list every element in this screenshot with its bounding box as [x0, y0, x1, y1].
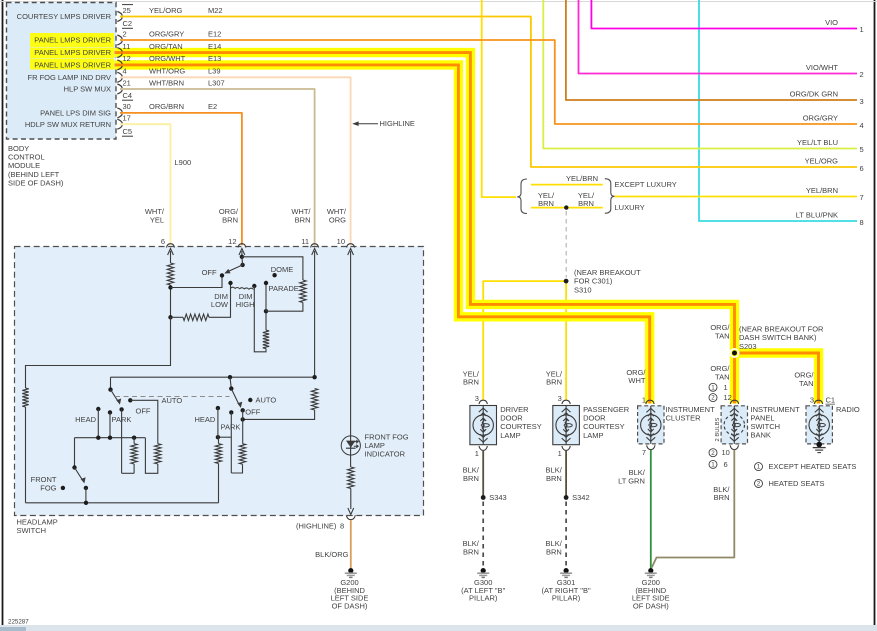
- svg-text:6: 6: [860, 164, 864, 173]
- wire ORG/BRN pin30 to headlamp switch pin 12: [120, 113, 242, 245]
- svg-text:LT GRN: LT GRN: [618, 476, 645, 485]
- right rotary switch lever: [230, 377, 231, 388]
- BCM pin connector arcs: [117, 12, 122, 16]
- svg-text:YEL/BRN: YEL/BRN: [566, 174, 598, 183]
- pin12 column to node: [241, 251, 243, 257]
- svg-text:BRN: BRN: [714, 493, 730, 502]
- svg-text:DOME: DOME: [271, 265, 294, 274]
- wire WHT/ORG pin4 to headlamp switch pin 10: [120, 77, 351, 245]
- svg-text:12: 12: [228, 237, 236, 246]
- node bus right lever: [228, 375, 232, 379]
- svg-text:PILLAR): PILLAR): [552, 594, 581, 603]
- svg-text:COURTESY LMPS DRIVER: COURTESY LMPS DRIVER: [17, 12, 112, 21]
- wire node up to PARADE contact: [265, 285, 267, 311]
- svg-text:BANK: BANK: [751, 431, 771, 440]
- svg-text:1: 1: [642, 395, 646, 404]
- switch pin 6 connector: [167, 244, 175, 248]
- wire LT BLU/PNK from top edge to exit 8: [699, 0, 857, 221]
- legend heated seats: [755, 480, 763, 488]
- svg-text:2: 2: [123, 29, 127, 38]
- svg-text:6: 6: [724, 460, 728, 469]
- svg-text:TAN: TAN: [799, 379, 813, 388]
- svg-text:HLP SW MUX: HLP SW MUX: [64, 85, 111, 94]
- right switch PARK contact: [229, 410, 233, 414]
- svg-text:BRN: BRN: [295, 215, 311, 224]
- svg-text:25: 25: [123, 6, 131, 15]
- highlighted wire ORG/TAN pin11 to S203 to panel switch bank and radio: [115, 53, 735, 404]
- svg-text:WHT/ORG: WHT/ORG: [149, 67, 185, 76]
- wire ORG/GRY pin2 to right edge exit 4: [120, 40, 857, 124]
- wire YEL/ORG pin25 to right edge exit 6: [120, 17, 857, 168]
- svg-text:HEAD: HEAD: [75, 415, 96, 424]
- svg-text:HIGH: HIGH: [236, 300, 255, 309]
- svg-text:PILLAR): PILLAR): [469, 594, 498, 603]
- svg-text:BRN: BRN: [463, 378, 479, 387]
- splice S203: [730, 349, 738, 357]
- wire PARK contact down to bus2: [109, 412, 111, 437]
- svg-text:1: 1: [475, 449, 479, 458]
- svg-text:DASH SWITCH BANK): DASH SWITCH BANK): [739, 333, 817, 342]
- radio chassis ground: [816, 442, 822, 448]
- svg-text:3: 3: [810, 395, 814, 404]
- ground G200 right: [648, 568, 653, 573]
- svg-text:YEL/LT BLU: YEL/LT BLU: [797, 138, 838, 147]
- svg-text:FOG: FOG: [40, 483, 56, 492]
- wire BLK/BRN driver lamp to S343: [482, 451, 484, 498]
- pin11 column down to main bus: [314, 251, 316, 377]
- svg-text:8: 8: [860, 218, 864, 227]
- svg-text:DRIVER: DRIVER: [500, 405, 529, 414]
- dashed wire S342 to G301: [565, 502, 567, 567]
- legend except heated seats: [755, 463, 763, 471]
- secondary bus left switch: [75, 437, 146, 439]
- contact DOME: [272, 273, 276, 277]
- svg-text:HEATED SEATS: HEATED SEATS: [769, 479, 825, 488]
- wire HEAD contact down to bus2: [97, 409, 99, 438]
- ground G300: [481, 568, 486, 573]
- svg-text:S342: S342: [572, 493, 590, 502]
- svg-text:BRN: BRN: [578, 199, 594, 208]
- svg-text:2: 2: [860, 70, 864, 79]
- switch pin 8 connector at bottom: [348, 508, 354, 515]
- resistor left B (auto): [155, 444, 161, 464]
- svg-text:BRN: BRN: [222, 215, 238, 224]
- splice S342: [564, 495, 569, 500]
- wire VIO from top edge to exit 1: [591, 0, 857, 29]
- svg-text:21: 21: [123, 78, 131, 87]
- resistor from pin11 node to OFF node: [311, 389, 317, 411]
- svg-text:17: 17: [123, 114, 131, 123]
- svg-text:COURTESY: COURTESY: [583, 422, 625, 431]
- svg-text:C4: C4: [123, 91, 133, 100]
- svg-text:MODULE: MODULE: [8, 161, 40, 170]
- wire VIO/WHT from top edge to exit 2: [579, 0, 858, 74]
- svg-text:CLUSTER: CLUSTER: [666, 413, 702, 422]
- svg-text:L900: L900: [175, 158, 192, 167]
- svg-text:3: 3: [860, 97, 864, 106]
- svg-text:(HIGHLINE): (HIGHLINE): [296, 522, 337, 531]
- node on pin6 column lower: [168, 315, 172, 319]
- left rotary switch lever: [110, 377, 112, 389]
- right PARK column: [230, 412, 232, 473]
- svg-text:BRN: BRN: [538, 199, 554, 208]
- svg-text:11: 11: [123, 42, 131, 51]
- splice S310: [564, 279, 569, 284]
- svg-text:LUXURY: LUXURY: [615, 203, 645, 212]
- svg-text:PANEL LMPS DRIVER: PANEL LMPS DRIVER: [34, 61, 111, 70]
- svg-text:COURTESY: COURTESY: [500, 422, 542, 431]
- svg-text:ORG/GRY: ORG/GRY: [803, 114, 838, 123]
- node PARADE branch: [264, 309, 268, 313]
- svg-text:OF DASH): OF DASH): [332, 601, 368, 610]
- horizontal resistor to DIM LOW riser: [171, 316, 184, 318]
- svg-text:225287: 225287: [8, 619, 29, 626]
- svg-text:AUTO: AUTO: [162, 396, 183, 405]
- wire ORG/DK GRN from top edge to exit 3: [566, 0, 857, 100]
- page left border: [2, 0, 4, 625]
- svg-text:7: 7: [642, 448, 646, 457]
- svg-text:4: 4: [123, 67, 127, 76]
- page top border: [0, 1, 877, 3]
- svg-text:1: 1: [558, 449, 562, 458]
- svg-text:YEL/BRN: YEL/BRN: [806, 186, 838, 195]
- contact front fog on: [84, 486, 88, 490]
- headlamp switch box: [15, 247, 424, 516]
- svg-text:6: 6: [161, 237, 165, 246]
- wire DIM HIGH down and to resistor: [254, 286, 266, 352]
- svg-text:12: 12: [123, 54, 131, 63]
- main bus line of rotary switches: [111, 376, 315, 378]
- svg-text:2: 2: [711, 450, 715, 457]
- svg-text:C2: C2: [123, 19, 133, 28]
- svg-text:HDLP SW MUX RETURN: HDLP SW MUX RETURN: [25, 120, 111, 129]
- contact OFF left switch: [119, 407, 123, 411]
- svg-text:2 BULBS: 2 BULBS: [715, 418, 721, 442]
- svg-text:3: 3: [558, 394, 562, 403]
- svg-text:PARK: PARK: [221, 422, 241, 431]
- svg-text:M22: M22: [208, 6, 223, 15]
- svg-text:1: 1: [860, 25, 864, 34]
- svg-text:C5: C5: [123, 127, 133, 136]
- svg-text:AUTO: AUTO: [256, 396, 277, 405]
- dashed wire S343 to G300: [482, 502, 484, 567]
- svg-text:BRN: BRN: [463, 547, 479, 556]
- svg-text:EXCEPT LUXURY: EXCEPT LUXURY: [615, 180, 677, 189]
- svg-text:VIO: VIO: [825, 18, 838, 27]
- svg-text:S343: S343: [489, 493, 507, 502]
- svg-text:EXCEPT HEATED SEATS: EXCEPT HEATED SEATS: [769, 462, 857, 471]
- contact DIM HIGH: [252, 284, 256, 288]
- svg-text:S203: S203: [739, 342, 757, 351]
- svg-text:4: 4: [860, 121, 864, 130]
- svg-text:SIDE OF DASH): SIDE OF DASH): [8, 179, 64, 188]
- svg-text:HIGHLINE: HIGHLINE: [380, 119, 415, 128]
- svg-text:ORG/DK GRN: ORG/DK GRN: [790, 90, 838, 99]
- wire YEL/LT BLU from top edge to exit 5: [543, 0, 857, 149]
- svg-text:3: 3: [475, 394, 479, 403]
- svg-text:12: 12: [724, 393, 732, 402]
- svg-text:BRN: BRN: [546, 474, 562, 483]
- svg-text:10: 10: [722, 448, 730, 457]
- svg-text:1: 1: [711, 384, 715, 391]
- svg-text:E13: E13: [208, 54, 221, 63]
- wire YEL/BRN exit 7: [615, 196, 858, 198]
- rheostat wave between DIM LOW and DIM HIGH: [231, 287, 254, 289]
- svg-text:(NEAR BREAKOUT: (NEAR BREAKOUT: [574, 268, 641, 277]
- wire YEL/BRN S310 to driver door lamp: [483, 281, 566, 400]
- svg-text:BLK/ORG: BLK/ORG: [315, 550, 349, 559]
- svg-text:ORG: ORG: [329, 215, 346, 224]
- svg-text:OFF: OFF: [245, 408, 260, 417]
- pin6 column lower run to fog line: [26, 317, 171, 388]
- front fog switch lever: [72, 465, 76, 469]
- switch pin 11 connector: [311, 244, 319, 248]
- svg-text:E14: E14: [208, 42, 221, 51]
- svg-text:8: 8: [340, 522, 344, 531]
- node pin12: [240, 255, 244, 259]
- resistor HEAD column to fog line: [218, 437, 220, 443]
- right switch OFF contact: [241, 408, 245, 412]
- wire BLK/BRN passenger lamp to S342: [565, 451, 567, 498]
- node right HEAD: [216, 435, 220, 439]
- front fog lamp indicator LED: [350, 251, 352, 467]
- svg-text:C1: C1: [826, 395, 836, 404]
- node bus pin11: [312, 375, 316, 379]
- svg-text:E2: E2: [208, 102, 217, 111]
- svg-text:1: 1: [711, 462, 715, 469]
- dashed detent arc line: [115, 396, 230, 398]
- svg-text:ORG/TAN: ORG/TAN: [149, 42, 183, 51]
- svg-text:SWITCH: SWITCH: [17, 526, 47, 535]
- contact DIM LOW: [228, 281, 232, 285]
- svg-text:L39: L39: [208, 67, 221, 76]
- dimmer switch lever: [240, 263, 244, 267]
- svg-text:OF DASH): OF DASH): [633, 601, 669, 610]
- ground G301: [564, 568, 569, 573]
- svg-text:TAN: TAN: [715, 331, 729, 340]
- instrument panel switch bank: [709, 383, 717, 391]
- svg-text:S310: S310: [574, 285, 592, 294]
- wire YEL/BRN S310 to passenger door lamp: [565, 281, 567, 400]
- wire BLK/ORG pin8 to G200: [350, 520, 352, 568]
- ground G200 left: [348, 568, 353, 573]
- wire YEL/BRN upper EXCEPT LUXURY: [531, 184, 603, 186]
- svg-text:YEL: YEL: [150, 215, 164, 224]
- svg-text:BRN: BRN: [463, 474, 479, 483]
- wire WHT/YEL L900 pin17 to headlamp switch pin 6: [120, 124, 171, 245]
- wire YEL/BRN vertical from top edge to brace: [482, 0, 516, 197]
- svg-text:OFF: OFF: [136, 407, 151, 416]
- dashed breakout to S310: [565, 211, 567, 278]
- svg-text:LT BLU/PNK: LT BLU/PNK: [796, 211, 838, 220]
- svg-text:30: 30: [123, 102, 131, 111]
- svg-text:RADIO: RADIO: [836, 405, 860, 414]
- svg-text:10: 10: [337, 237, 345, 246]
- page right border: [874, 0, 876, 625]
- resistor below PARADE node: [263, 330, 269, 348]
- contact HEAD left switch: [96, 407, 100, 411]
- wire bus2 left end down to fog lever: [74, 438, 76, 468]
- wire BLK/BRN switch bank to G200: [652, 450, 735, 568]
- resistor below LED: [348, 467, 354, 489]
- splice S343: [481, 495, 486, 500]
- svg-text:ORG/WHT: ORG/WHT: [149, 54, 186, 63]
- junction dot on LUXURY line: [564, 205, 568, 209]
- svg-text:INDICATOR: INDICATOR: [365, 450, 406, 459]
- svg-text:L307: L307: [208, 78, 225, 87]
- svg-text:YEL/ORG: YEL/ORG: [805, 157, 839, 166]
- svg-text:LAMP: LAMP: [500, 431, 520, 440]
- contact PARADE: [264, 281, 268, 285]
- tick above pin 25: [122, 4, 133, 6]
- svg-text:PASSENGER: PASSENGER: [583, 405, 630, 414]
- wire WHT/BRN pin21 to headlamp switch pin 11: [120, 89, 315, 245]
- fog output line to head resistor column: [26, 502, 219, 504]
- svg-text:PARADE: PARADE: [269, 284, 299, 293]
- HIGHLINE arrow pointing at WHT/ORG wire: [355, 123, 378, 125]
- highlight marks on PANEL LMPS DRIVER labels: [30, 33, 114, 48]
- contact OFF (dimmer): [220, 273, 224, 277]
- svg-text:BRN: BRN: [546, 547, 562, 556]
- svg-text:ORG/GRY: ORG/GRY: [149, 29, 184, 38]
- svg-text:FOR C301): FOR C301): [574, 277, 613, 286]
- svg-text:PANEL LPS DIM SIG: PANEL LPS DIM SIG: [40, 109, 111, 118]
- node on pin6 column upper: [168, 285, 172, 289]
- footer bar: [0, 625, 877, 631]
- svg-text:7: 7: [860, 193, 864, 202]
- contact PARK left switch: [108, 410, 112, 414]
- brace left curly: [517, 179, 527, 214]
- resistor left A (off): [122, 472, 135, 474]
- right switch: AUTO contact isolated: [248, 398, 252, 402]
- body control module box: [7, 3, 117, 140]
- svg-text:5: 5: [860, 145, 864, 154]
- svg-text:11: 11: [301, 237, 309, 246]
- svg-text:ORG/BRN: ORG/BRN: [149, 102, 184, 111]
- switch pin 10 connector: [347, 244, 355, 248]
- wire OFF contact down crossing bus2: [121, 409, 123, 473]
- right OFF column resistor: [242, 419, 244, 443]
- svg-text:OFF: OFF: [202, 268, 217, 277]
- svg-text:BRN: BRN: [546, 378, 562, 387]
- svg-text:LAMP: LAMP: [583, 431, 603, 440]
- right switch HEAD contact: [216, 406, 220, 410]
- contact front fog off (isolated): [61, 486, 65, 490]
- svg-text:E12: E12: [208, 29, 221, 38]
- wire node to OFF contact riser: [171, 278, 223, 288]
- svg-text:FR FOG LAMP IND DRV: FR FOG LAMP IND DRV: [28, 73, 112, 82]
- svg-text:PANEL LMPS DRIVER: PANEL LMPS DRIVER: [34, 36, 111, 45]
- svg-text:(NEAR BREAKOUT FOR: (NEAR BREAKOUT FOR: [739, 324, 824, 333]
- wire BLK/LT GRN cluster to G200: [650, 450, 652, 569]
- svg-text:HEAD: HEAD: [194, 415, 215, 424]
- svg-text:VIO/WHT: VIO/WHT: [806, 63, 838, 72]
- contact AUTO left with wire to resistor: [128, 398, 132, 402]
- node right OFF: [241, 417, 245, 421]
- svg-text:1: 1: [757, 464, 761, 471]
- highlighted wire ORG/WHT pin12 to instrument cluster: [115, 65, 650, 404]
- svg-text:PANEL LMPS DRIVER: PANEL LMPS DRIVER: [34, 48, 111, 57]
- svg-text:2: 2: [711, 395, 715, 402]
- switch pin 12 connector: [238, 244, 246, 248]
- svg-text:2: 2: [757, 481, 761, 488]
- svg-text:WHT/BRN: WHT/BRN: [149, 78, 184, 87]
- svg-text:YEL/ORG: YEL/ORG: [149, 6, 183, 15]
- pin6 column wire and resistor: [170, 251, 172, 263]
- svg-text:LOW: LOW: [211, 300, 229, 309]
- svg-text:1: 1: [724, 383, 728, 392]
- svg-text:WHT: WHT: [628, 376, 645, 385]
- wire pin12 node to parade resistor: [242, 257, 303, 280]
- svg-text:TAN: TAN: [715, 372, 729, 381]
- brace right curly merging to exit 7: [605, 179, 615, 214]
- wire YEL/BRN lower LUXURY: [531, 207, 603, 209]
